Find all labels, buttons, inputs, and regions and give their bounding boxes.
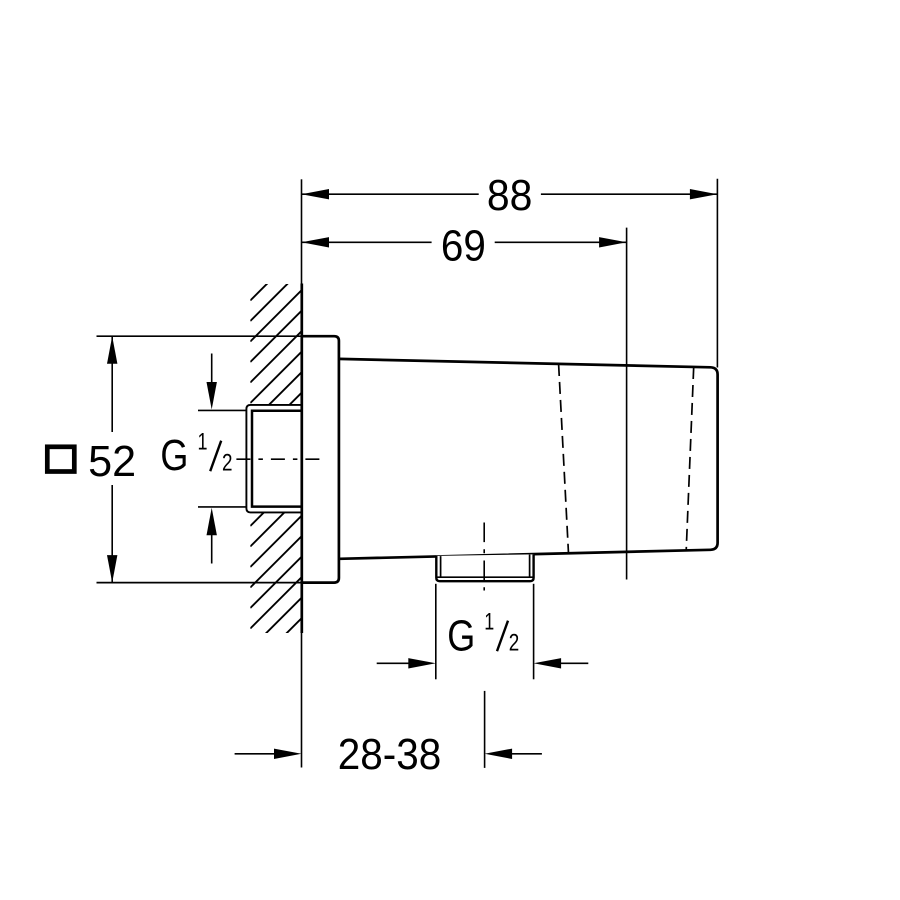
body (tapered holder cone) [339,359,718,559]
outlet nipple outer profile [436,554,533,581]
G1/2 boss label: down arrow [211,354,213,397]
G1/2 boss label: upper extension line [198,409,247,411]
dimension 88: line [302,193,479,195]
G1/2 outlet label: fraction slash [497,621,508,652]
dimension 52: top arrowhead [107,336,117,364]
flange (52x52 wall plate) [302,336,339,582]
dimension 69: right arrowhead [599,237,627,247]
G1/2 boss label: fraction slash [210,441,221,472]
G1/2 outlet label: left arrow [377,662,422,664]
svg-text:28-38: 28-38 [338,730,442,779]
dimension 69: line [302,241,432,243]
dimension 88: right arrowhead [690,189,718,199]
centerline horizontal through boss [236,458,320,460]
extension line: wall face down to 28-38 dimension [301,633,303,768]
wall hatching [250,248,303,690]
dimension 28-38: right extension line [484,691,486,768]
svg-text:69: 69 [441,221,486,270]
svg-text:G: G [160,431,188,480]
svg-text:1: 1 [484,608,494,635]
svg-text:2: 2 [509,629,520,656]
dimension 28-38: right arrow [498,753,542,755]
G1/2 outlet label: right extension line [533,584,535,680]
hidden cone silhouette (right dashed line) [686,367,694,551]
G1/2 outlet label: left extension line [435,584,437,680]
svg-text:52: 52 [88,437,136,486]
dimension 88: right extension line [716,179,718,368]
centerline vertical through outlet [483,523,485,591]
dimension 52: vertical line [111,336,113,432]
dimension 69: right extension line (through body) [626,228,628,580]
G1/2 outlet label: right arrow [547,662,588,664]
extension line: flange top edge extended left for 52 [97,335,302,337]
svg-text:1: 1 [198,429,208,456]
hidden cone silhouette (left dashed line) [559,364,569,554]
dimension 52: bottom arrowhead [107,555,117,583]
wall face line (thick section through wall) [300,284,303,634]
extension line: flange bottom edge extended left for 52 [97,582,302,584]
thread boss inner (thread root) lines [252,411,302,507]
svg-text:88: 88 [487,171,533,220]
svg-text:2: 2 [222,450,233,477]
outlet nipple thread root lines [440,556,442,577]
dimension 28-38: left arrow [235,753,288,755]
square symbol before 52 [47,447,74,472]
G1/2 boss label: lower extension line [198,506,247,508]
svg-text:G: G [447,611,475,660]
extension line: wall face up to 88 dimension [301,179,303,283]
G1/2 boss label: up arrow [211,521,213,564]
dimension 69: left arrowhead [302,237,330,247]
dimension 88: left arrowhead [302,189,330,199]
thread boss outer profile (G1/2 wall connection) [246,405,301,513]
